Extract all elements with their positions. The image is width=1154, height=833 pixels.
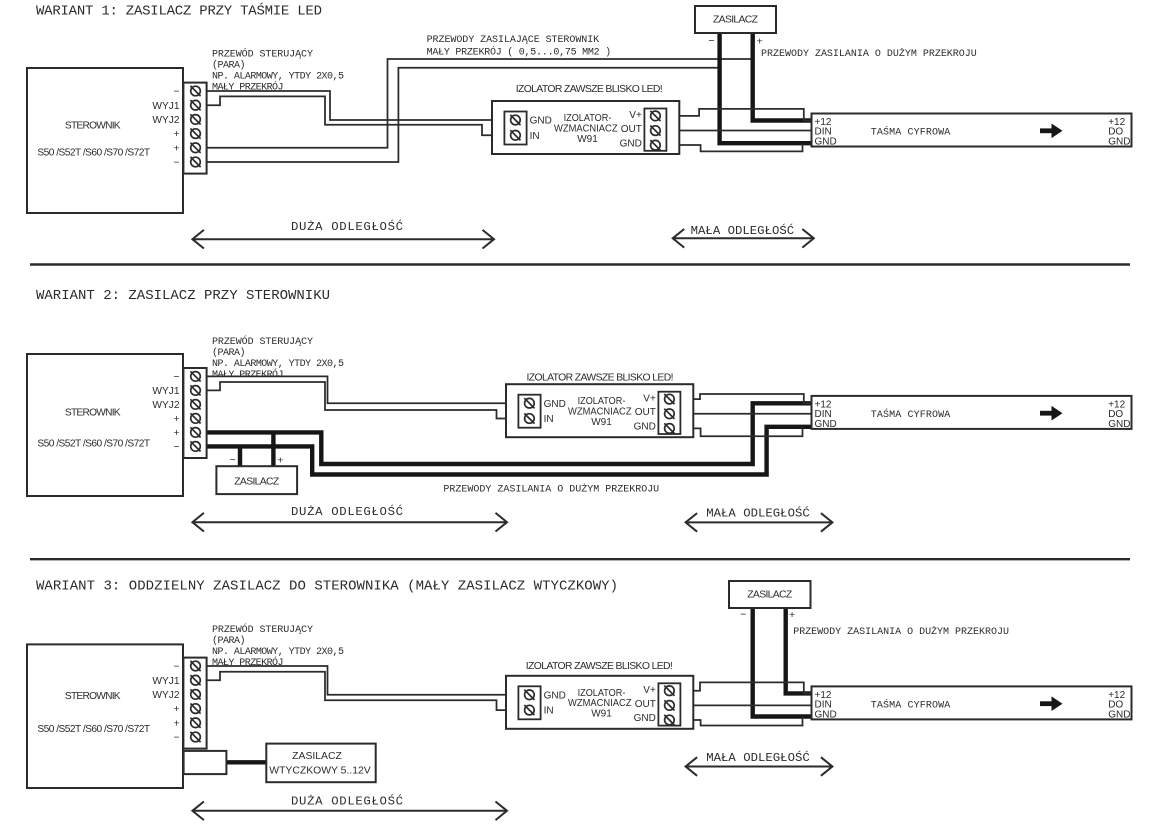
svg-text:GND: GND (1108, 419, 1130, 430)
W91 input screw IN (variant 1) (510, 130, 520, 140)
wire W91 OUT to strip DIN (variant 1) (666, 130, 811, 132)
svg-text:+: + (174, 428, 180, 439)
W91 output screw OUT (variant 3) (664, 700, 674, 710)
svg-text:WYJ1: WYJ1 (152, 386, 180, 397)
terminal screw 5 (+) of STEROWNIK (variant 2) (190, 427, 200, 437)
svg-text:IN: IN (530, 131, 540, 142)
power supply box ZASILACZ top (variant 3) (729, 581, 811, 608)
terminal screw 1 (−) of STEROWNIK (variant 1) (190, 86, 200, 96)
wire STEROWNIK WYJ1 to W91 IN (variant 2) (207, 382, 519, 419)
distance arrow MALA ODLEGLOSC (variant 3) (686, 757, 833, 776)
wire W91 GND to strip GND (variant 3) (680, 717, 802, 726)
wire W91 GND to strip GND (variant 1) (666, 143, 802, 151)
terminal block of STEROWNIK (variant 2) (183, 368, 206, 458)
svg-text:NP. ALARMOWY, YTDY 2X0,5: NP. ALARMOWY, YTDY 2X0,5 (212, 647, 344, 658)
svg-text:−: − (740, 609, 746, 621)
svg-text:IZOLATOR-: IZOLATOR- (578, 396, 626, 407)
svg-text:NP. ALARMOWY, YTDY 2X0,5: NP. ALARMOWY, YTDY 2X0,5 (212, 72, 344, 83)
terminal screw 1 (−) of STEROWNIK (variant 3) (190, 661, 200, 671)
terminal screw 1 (−) of STEROWNIK (variant 2) (190, 371, 200, 381)
svg-text:+: + (277, 455, 283, 467)
label IZOLATOR-WZMACNIACZ W91 (variant 3) (568, 688, 632, 720)
svg-text:ZASILACZ: ZASILACZ (234, 476, 280, 487)
power wire ZASILACZ + to strip +12 (variant 3) (786, 608, 812, 693)
svg-text:S50 /S52T /S60 /S70 /S72T: S50 /S52T /S60 /S70 /S72T (37, 724, 150, 735)
W91 input terminal block (variant 3) (518, 686, 540, 719)
svg-text:MAŁY PRZEKRÓJ: MAŁY PRZEKRÓJ (212, 655, 284, 669)
data-flow arrow inside strip (variant 3) (1040, 696, 1063, 711)
svg-text:+: + (174, 143, 180, 154)
svg-text:GND: GND (544, 690, 566, 701)
svg-text:WZMACNIACZ: WZMACNIACZ (554, 123, 618, 134)
svg-text:PRZEWODY ZASILANIA O DUŻYM PRZ: PRZEWODY ZASILANIA O DUŻYM PRZEKROJU (443, 483, 659, 496)
svg-text:S50 /S52T /S60 /S70 /S72T: S50 /S52T /S60 /S70 /S72T (37, 439, 150, 450)
svg-text:WARIANT 3: ODDZIELNY ZASILACZ: WARIANT 3: ODDZIELNY ZASILACZ DO STEROWN… (36, 578, 618, 594)
W91 input screw GND (variant 3) (524, 690, 534, 700)
svg-text:WYJ2: WYJ2 (152, 115, 180, 126)
svg-text:OUT: OUT (621, 124, 642, 135)
svg-text:GND: GND (1108, 136, 1130, 147)
W91 output screw OUT (variant 2) (664, 409, 674, 419)
wire W91 OUT to strip DIN (variant 3) (680, 704, 811, 706)
svg-text:PRZEWÓD STERUJĄCY: PRZEWÓD STERUJĄCY (212, 622, 313, 636)
svg-text:IZOLATOR ZAWSZE BLISKO LED!: IZOLATOR ZAWSZE BLISKO LED! (527, 372, 674, 383)
svg-text:−: − (230, 454, 236, 466)
terminal screw 2 (WYJ1) of STEROWNIK (variant 2) (190, 385, 200, 395)
terminal screw 2 (WYJ1) of STEROWNIK (variant 1) (190, 100, 200, 110)
controller box STEROWNIK (variant 3) (27, 644, 183, 788)
svg-text:WYJ1: WYJ1 (152, 676, 180, 687)
svg-text:V+: V+ (643, 393, 656, 404)
wire W91 OUT to strip DIN (variant 2) (680, 413, 811, 415)
svg-text:DUŻA ODLEGŁOŚĆ: DUŻA ODLEGŁOŚĆ (291, 219, 403, 234)
label IZOLATOR-WZMACNIACZ W91 (variant 1) (554, 113, 618, 145)
terminal block of STEROWNIK (variant 1) (183, 83, 206, 174)
svg-text:TAŚMA CYFROWA: TAŚMA CYFROWA (871, 407, 951, 421)
distance arrow MALA ODLEGLOSC (variant 2) (686, 513, 833, 532)
data-flow arrow inside strip (variant 2) (1040, 406, 1063, 421)
W91 input screw IN (variant 3) (524, 705, 534, 715)
svg-text:+: + (757, 36, 763, 48)
svg-text:PRZEWÓD STERUJĄCY: PRZEWÓD STERUJĄCY (212, 47, 313, 61)
distance arrow DUZA ODLEGLOSC (variant 2) (192, 513, 507, 532)
svg-text:STEROWNIK: STEROWNIK (65, 408, 121, 419)
terminal screw 6 (−) of STEROWNIK (variant 3) (190, 732, 200, 742)
distance arrow DUZA ODLEGLOSC (variant 3) (192, 802, 507, 821)
svg-text:IN: IN (544, 414, 554, 425)
svg-text:GND: GND (1108, 709, 1130, 720)
svg-text:STEROWNIK: STEROWNIK (65, 691, 121, 702)
separator line between variant 2 and 3 (30, 558, 1130, 560)
svg-text:(PARA): (PARA) (212, 635, 246, 647)
svg-text:W91: W91 (577, 134, 598, 145)
svg-text:MAŁA ODLEGŁOŚĆ: MAŁA ODLEGŁOŚĆ (706, 506, 810, 521)
label IZOLATOR-WZMACNIACZ W91 (variant 2) (568, 396, 632, 428)
plug-in power supply box ZASILACZ WTYCZKOWY 5..12V (variant 3) (266, 744, 375, 783)
power cord plug to ZASILACZ WTYCZKOWY (variant 3) (226, 760, 266, 764)
wire STEROWNIK + terminal to ZASILACZ + (variant 1) (207, 59, 753, 148)
wire W91 V+ to strip +12 (variant 2) (680, 394, 811, 403)
svg-text:WZMACNIACZ: WZMACNIACZ (568, 407, 632, 418)
svg-text:WZMACNIACZ: WZMACNIACZ (568, 698, 632, 709)
svg-text:PRZEWÓD STERUJĄCY: PRZEWÓD STERUJĄCY (212, 334, 313, 348)
LED strip box TASMA CYFROWA (variant 3) (812, 686, 1132, 719)
svg-text:V+: V+ (629, 110, 642, 121)
terminal screw 5 (+) of STEROWNIK (variant 3) (190, 718, 200, 728)
svg-text:MAŁA ODLEGŁOŚĆ: MAŁA ODLEGŁOŚĆ (691, 223, 795, 238)
svg-text:PRZEWODY ZASILANIA O DUŻYM PRZ: PRZEWODY ZASILANIA O DUŻYM PRZEKROJU (761, 47, 977, 60)
svg-text:WARIANT 2: ZASILACZ PRZY STERO: WARIANT 2: ZASILACZ PRZY STEROWNIKU (36, 288, 330, 304)
LED strip box TASMA CYFROWA (variant 1) (812, 114, 1132, 147)
svg-text:TAŚMA CYFROWA: TAŚMA CYFROWA (871, 697, 951, 711)
svg-text:IZOLATOR-: IZOLATOR- (578, 688, 626, 699)
svg-text:V+: V+ (643, 685, 656, 696)
distance arrow MALA ODLEGLOSC (variant 1) (673, 229, 814, 248)
svg-text:−: − (174, 733, 180, 744)
svg-text:WARIANT 1: ZASILACZ PRZY TAŚMI: WARIANT 1: ZASILACZ PRZY TAŚMIE LED (36, 1, 322, 19)
terminal screw 2 (WYJ1) of STEROWNIK (variant 3) (190, 675, 200, 685)
W91 input screw IN (variant 2) (524, 413, 534, 423)
svg-text:DUŻA ODLEGŁOŚĆ: DUŻA ODLEGŁOŚĆ (291, 504, 403, 519)
svg-text:IN: IN (544, 706, 554, 717)
svg-text:MAŁY PRZEKRÓJ: MAŁY PRZEKRÓJ (212, 367, 284, 381)
svg-text:GND: GND (544, 399, 566, 410)
svg-text:GND: GND (634, 422, 656, 433)
W91 input screw GND (variant 1) (510, 115, 520, 125)
svg-text:WTYCZKOWY 5..12V: WTYCZKOWY 5..12V (269, 766, 370, 777)
svg-text:GND: GND (634, 713, 656, 724)
svg-text:−: − (174, 87, 180, 98)
power wire - rail STEROWNIK/ZASILACZ to strip GND (variant 2) (207, 427, 812, 475)
controller box STEROWNIK (variant 2) (27, 354, 183, 496)
svg-text:WYJ1: WYJ1 (152, 101, 180, 112)
svg-text:(PARA): (PARA) (212, 60, 246, 72)
svg-text:DUŻA ODLEGŁOŚĆ: DUŻA ODLEGŁOŚĆ (291, 794, 403, 809)
power wire ZASILACZ - to strip GND (variant 3) (753, 608, 812, 717)
terminal screw 6 (−) of STEROWNIK (variant 1) (190, 157, 200, 167)
terminal block of STEROWNIK (variant 3) (183, 658, 206, 749)
terminal screw 3 (WYJ2) of STEROWNIK (variant 2) (190, 399, 200, 409)
W91 output screw V+ (variant 2) (664, 394, 674, 404)
isolator-amplifier box W91 (variant 3) (506, 676, 693, 729)
power supply box ZASILACZ bottom (variant 2) (216, 466, 297, 494)
W91 output terminal block (variant 2) (658, 392, 680, 434)
wire W91 GND to strip GND (variant 2) (680, 427, 802, 437)
svg-text:PRZEWODY ZASILANIA O DUŻYM PRZ: PRZEWODY ZASILANIA O DUŻYM PRZEKROJU (793, 625, 1009, 638)
svg-text:OUT: OUT (635, 699, 656, 710)
wire STEROWNIK WYJ1 to W91 IN (variant 1) (207, 96, 505, 135)
svg-text:GND: GND (620, 138, 642, 149)
svg-text:NP. ALARMOWY, YTDY 2X0,5: NP. ALARMOWY, YTDY 2X0,5 (212, 359, 344, 370)
W91 output screw GND (variant 2) (664, 423, 674, 433)
terminal screw 4 (+) of STEROWNIK (variant 2) (190, 413, 200, 423)
svg-text:MAŁA ODLEGŁOŚĆ: MAŁA ODLEGŁOŚĆ (706, 750, 810, 765)
svg-text:IZOLATOR ZAWSZE BLISKO LED!: IZOLATOR ZAWSZE BLISKO LED! (526, 661, 673, 672)
wire STEROWNIK terminal 1 - to W91 GND (variant 3) (207, 666, 519, 695)
svg-text:+: + (174, 718, 180, 729)
svg-text:MAŁY PRZEKRÓJ: MAŁY PRZEKRÓJ (212, 80, 284, 94)
svg-text:WYJ2: WYJ2 (152, 400, 180, 411)
svg-text:MAŁY PRZEKRÓJ ( 0,5...0,75 MM2: MAŁY PRZEKRÓJ ( 0,5...0,75 MM2 ) (427, 45, 612, 59)
terminal screw 6 (−) of STEROWNIK (variant 2) (190, 441, 200, 451)
W91 output screw V+ (variant 1) (650, 111, 660, 121)
plug connector on STEROWNIK (variant 3) (184, 751, 227, 774)
isolator-amplifier box W91 (variant 1) (492, 101, 679, 154)
terminal screw 4 (+) of STEROWNIK (variant 1) (190, 129, 200, 139)
svg-text:ZASILACZ: ZASILACZ (292, 751, 342, 762)
svg-text:ZASILACZ: ZASILACZ (747, 590, 793, 601)
svg-text:GND: GND (530, 116, 552, 127)
svg-text:WYJ2: WYJ2 (152, 690, 180, 701)
svg-text:−: − (174, 442, 180, 453)
power wire + rail STEROWNIK/ZASILACZ to strip +12 (variant 2) (207, 403, 812, 464)
svg-text:STEROWNIK: STEROWNIK (65, 120, 121, 131)
wire W91 V+ to strip +12 (variant 1) (666, 109, 811, 121)
W91 input terminal block (variant 1) (504, 112, 526, 145)
svg-text:GND: GND (815, 136, 837, 147)
svg-text:+: + (174, 704, 180, 715)
wire STEROWNIK terminal 1 - to W91 GND (variant 2) (207, 376, 519, 403)
distance arrow DUZA ODLEGLOSC (variant 1) (192, 230, 494, 249)
power supply box ZASILACZ top (variant 1) (695, 6, 776, 33)
W91 input screw GND (variant 2) (524, 398, 534, 408)
svg-text:−: − (708, 35, 714, 47)
terminal screw 4 (+) of STEROWNIK (variant 3) (190, 704, 200, 714)
svg-text:+: + (174, 414, 180, 425)
svg-text:−: − (174, 158, 180, 169)
terminal screw 3 (WYJ2) of STEROWNIK (variant 3) (190, 689, 200, 699)
power wire ZASILACZ - to strip GND (variant 1) (720, 33, 812, 143)
wire STEROWNIK - terminal to ZASILACZ - (variant 1) (207, 68, 720, 162)
W91 output terminal block (variant 3) (658, 683, 680, 725)
svg-text:GND: GND (815, 419, 837, 430)
svg-text:TAŚMA CYFROWA: TAŚMA CYFROWA (871, 125, 951, 139)
wire STEROWNIK WYJ1 to W91 IN (variant 3) (207, 672, 519, 710)
terminal screw 5 (+) of STEROWNIK (variant 1) (190, 143, 200, 153)
svg-text:GND: GND (815, 709, 837, 720)
svg-text:OUT: OUT (635, 407, 656, 418)
power wire ZASILACZ - stub (variant 2) (238, 446, 242, 466)
svg-text:−: − (174, 662, 180, 673)
svg-text:IZOLATOR-: IZOLATOR- (564, 113, 612, 124)
data-flow arrow inside strip (variant 1) (1040, 124, 1063, 139)
isolator-amplifier box W91 (variant 2) (506, 384, 693, 437)
svg-text:IZOLATOR ZAWSZE BLISKO LED!: IZOLATOR ZAWSZE BLISKO LED! (516, 84, 663, 95)
wire STEROWNIK terminal 1 - to W91 GND (variant 1) (207, 91, 505, 120)
W91 output screw V+ (variant 3) (664, 686, 674, 696)
W91 output screw GND (variant 1) (650, 140, 660, 150)
W91 input terminal block (variant 2) (518, 395, 540, 428)
wire W91 V+ to strip +12 (variant 3) (680, 682, 811, 693)
W91 output screw GND (variant 3) (664, 715, 674, 725)
svg-text:ZASILACZ: ZASILACZ (713, 15, 759, 26)
svg-text:+: + (174, 129, 180, 140)
W91 output terminal block (variant 1) (644, 109, 666, 151)
controller box STEROWNIK (variant 1) (27, 68, 183, 213)
power wire ZASILACZ + to strip +12 (variant 1) (753, 33, 812, 121)
W91 output screw OUT (variant 1) (650, 126, 660, 136)
svg-text:(PARA): (PARA) (212, 347, 246, 359)
power wire ZASILACZ + stub (variant 2) (271, 432, 275, 466)
svg-text:PRZEWODY ZASILAJĄCE STEROWNIK: PRZEWODY ZASILAJĄCE STEROWNIK (427, 35, 600, 46)
LED strip box TASMA CYFROWA (variant 2) (812, 396, 1132, 429)
terminal screw 3 (WYJ2) of STEROWNIK (variant 1) (190, 114, 200, 124)
svg-text:+: + (789, 609, 795, 621)
svg-text:W91: W91 (591, 709, 612, 720)
svg-text:W91: W91 (591, 417, 612, 428)
svg-text:S50 /S52T /S60 /S70 /S72T: S50 /S52T /S60 /S70 /S72T (37, 148, 150, 159)
separator line between variant 1 and 2 (30, 263, 1130, 265)
svg-text:−: − (174, 372, 180, 383)
